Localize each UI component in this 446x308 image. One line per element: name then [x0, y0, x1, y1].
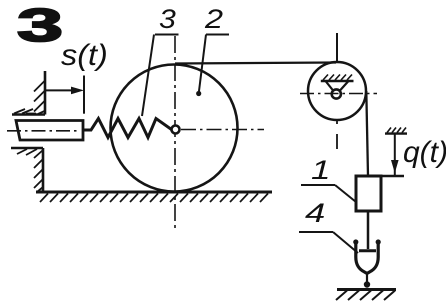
pulley axis line above	[336, 33, 338, 62]
wall lower support	[11, 148, 43, 192]
rope from disk to pulley	[175, 63, 336, 64]
damper stem and foot	[366, 273, 368, 285]
ground right	[337, 288, 396, 291]
disk vertical centerline	[174, 36, 176, 231]
disk horizontal centerline	[181, 129, 264, 131]
s(t) displacement arrow	[46, 87, 84, 95]
label 3 with leader	[159, 4, 176, 34]
s(t) reference tick	[83, 76, 85, 114]
label 2 with leader	[204, 4, 224, 34]
svg-text:3: 3	[17, 0, 63, 51]
block 1	[356, 176, 381, 211]
label s(t)	[61, 38, 108, 72]
disk center pin	[172, 126, 180, 134]
pulley vertical centerline dashes	[336, 120, 338, 125]
problem number 3	[17, 0, 63, 51]
label 4 with leader	[305, 198, 325, 228]
pulley bracket triangle	[326, 81, 334, 91]
svg-text:1: 1	[311, 155, 331, 185]
rope from pulley to block	[366, 91, 368, 176]
q(t) anchor	[385, 132, 407, 134]
spring 3	[83, 119, 172, 138]
piston rod	[16, 121, 83, 141]
ground left hatching	[40, 194, 268, 203]
pulley pin	[332, 89, 341, 98]
svg-text:q(t): q(t)	[403, 136, 446, 169]
q(t) force line with arrow	[394, 134, 396, 176]
wall lower hatching	[17, 149, 43, 192]
pulley ceiling mount	[321, 80, 354, 83]
svg-text:3: 3	[159, 4, 176, 34]
label 1 with leader	[311, 155, 331, 185]
leader dot on disk	[196, 91, 201, 96]
damper piston plate	[359, 249, 376, 252]
wall upper support	[12, 71, 45, 115]
wall upper hatching	[14, 81, 45, 114]
label q(t)	[403, 136, 446, 169]
damper cup 4	[356, 242, 367, 274]
svg-text:2: 2	[204, 4, 224, 34]
rod centerline	[7, 130, 80, 132]
svg-text:s(t): s(t)	[61, 38, 108, 72]
disk 2	[111, 65, 238, 192]
ground left	[36, 191, 272, 194]
damper rod	[367, 211, 370, 249]
svg-text:4: 4	[305, 198, 325, 228]
pulley horizontal centerline	[300, 93, 377, 95]
pulley	[308, 62, 366, 120]
